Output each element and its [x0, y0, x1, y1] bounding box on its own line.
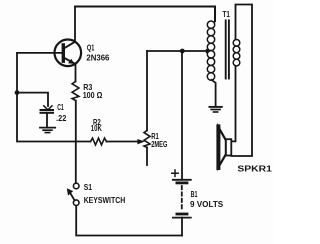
svg-text:9 VOLTS: 9 VOLTS	[190, 200, 224, 209]
svg-text:2N366: 2N366	[86, 54, 110, 63]
svg-text:.22: .22	[56, 114, 67, 123]
svg-text:S1: S1	[84, 183, 93, 192]
svg-text:10K: 10K	[91, 124, 102, 133]
svg-text:B1: B1	[191, 190, 198, 199]
svg-text:2MEG: 2MEG	[151, 140, 167, 149]
svg-text:100 Ω: 100 Ω	[83, 91, 103, 100]
svg-text:T1: T1	[223, 10, 231, 19]
svg-text:KEYSWITCH: KEYSWITCH	[84, 196, 126, 205]
svg-text:Q1: Q1	[87, 43, 95, 52]
svg-text:SPKR1: SPKR1	[237, 165, 272, 174]
svg-text:C1: C1	[57, 103, 64, 112]
